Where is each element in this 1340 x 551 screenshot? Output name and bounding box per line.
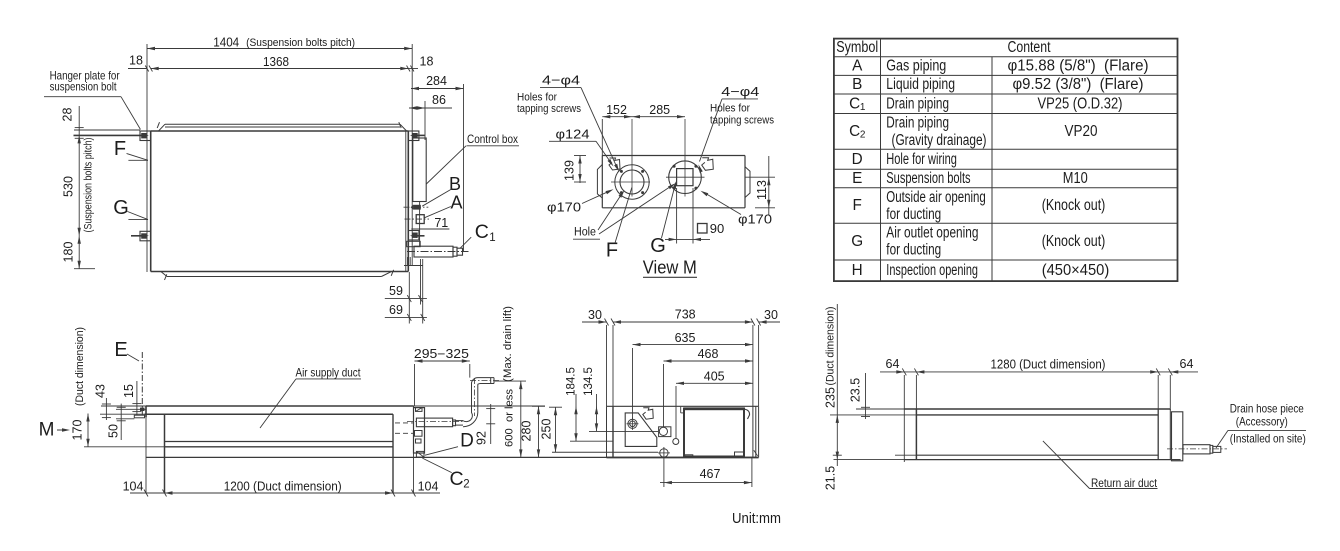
svg-text:(450×450): (450×450) [1042, 262, 1110, 279]
svg-text:Outside air opening: Outside air opening [886, 189, 986, 206]
svg-text:φ9.52 (3/8") (Flare): φ9.52 (3/8") (Flare) [1013, 76, 1144, 93]
svg-text:G: G [851, 233, 863, 250]
svg-text:C: C [449, 468, 463, 490]
svg-text:104: 104 [123, 479, 144, 493]
svg-text:(Max. drain lift): (Max. drain lift) [502, 306, 514, 382]
svg-text:VP20: VP20 [1065, 123, 1098, 140]
svg-text:Content: Content [1008, 39, 1052, 56]
svg-text:1200 (Duct dimension): 1200 (Duct dimension) [224, 479, 342, 493]
svg-text:280: 280 [520, 421, 534, 442]
svg-text:64: 64 [886, 357, 900, 371]
svg-text:(Installed on site): (Installed on site) [1230, 431, 1306, 445]
svg-text:235: 235 [824, 387, 838, 408]
svg-text:Drain hose piece: Drain hose piece [1230, 401, 1304, 415]
svg-text:1404: 1404 [213, 35, 239, 50]
svg-text:285: 285 [649, 103, 670, 117]
svg-text:69: 69 [389, 303, 403, 317]
svg-text:467: 467 [700, 467, 721, 481]
svg-text:21.5: 21.5 [824, 466, 838, 490]
svg-text:Drain piping: Drain piping [886, 115, 949, 132]
svg-text:A: A [450, 193, 462, 213]
svg-text:1: 1 [860, 102, 866, 113]
svg-text:113: 113 [755, 180, 769, 200]
svg-text:92: 92 [475, 431, 489, 445]
svg-text:F: F [114, 138, 126, 160]
svg-text:Return air duct: Return air duct [1091, 476, 1158, 490]
svg-text:VP25 (O.D.32): VP25 (O.D.32) [1038, 95, 1123, 112]
svg-text:(Duct dimension): (Duct dimension) [825, 306, 837, 385]
svg-text:134.5: 134.5 [583, 367, 595, 396]
svg-text:50: 50 [107, 424, 121, 438]
svg-text:φ124: φ124 [556, 127, 590, 142]
svg-text:4−φ4: 4−φ4 [721, 84, 759, 99]
svg-text:C: C [849, 95, 860, 112]
svg-text:φ170: φ170 [547, 200, 581, 215]
svg-text:F: F [853, 197, 862, 214]
svg-text:295−325: 295−325 [414, 347, 469, 361]
svg-text:M: M [39, 420, 55, 441]
svg-text:suspension bolt: suspension bolt [50, 79, 118, 93]
svg-text:2: 2 [860, 129, 866, 140]
svg-text:tapping screws: tapping screws [517, 103, 581, 115]
svg-text:φ15.88 (5/8") (Flare): φ15.88 (5/8") (Flare) [1008, 58, 1149, 75]
svg-text:(Knock out): (Knock out) [1042, 197, 1106, 214]
svg-text:2: 2 [463, 478, 469, 490]
svg-text:D: D [460, 431, 474, 452]
svg-text:for ducting: for ducting [886, 206, 941, 223]
svg-text:B: B [449, 174, 461, 194]
svg-text:Inspection opening: Inspection opening [886, 262, 978, 279]
svg-text:71: 71 [434, 216, 448, 230]
svg-text:A: A [852, 58, 863, 75]
svg-text:View M: View M [643, 258, 697, 278]
svg-text:E: E [852, 170, 862, 187]
svg-text:Hole for wiring: Hole for wiring [886, 151, 957, 168]
svg-text:530: 530 [62, 176, 76, 197]
svg-text:E: E [114, 339, 127, 361]
svg-text:Symbol: Symbol [836, 39, 878, 56]
svg-text:180: 180 [62, 242, 76, 263]
svg-text:(Knock out): (Knock out) [1042, 233, 1106, 250]
svg-text:4−φ4: 4−φ4 [542, 73, 580, 88]
svg-text:Air outlet opening: Air outlet opening [886, 224, 978, 241]
svg-text:28: 28 [61, 108, 75, 122]
svg-text:(Suspension bolts pitch): (Suspension bolts pitch) [83, 137, 95, 232]
svg-text:for ducting: for ducting [886, 242, 941, 259]
svg-text:43: 43 [94, 384, 108, 398]
svg-text:tapping screws: tapping screws [710, 115, 774, 127]
svg-text:90: 90 [710, 221, 724, 236]
svg-text:284: 284 [426, 74, 447, 88]
svg-text:184.5: 184.5 [566, 367, 578, 396]
svg-text:Holes for: Holes for [517, 92, 557, 104]
svg-text:152: 152 [606, 103, 627, 117]
svg-text:18: 18 [129, 54, 143, 68]
svg-text:59: 59 [389, 284, 403, 298]
svg-text:(Duct dimension): (Duct dimension) [74, 327, 86, 406]
svg-text:Suspension bolts: Suspension bolts [886, 170, 971, 187]
svg-text:Holes for: Holes for [710, 103, 750, 115]
svg-text:Control box: Control box [467, 132, 518, 146]
svg-text:18: 18 [420, 55, 434, 69]
svg-text:Hole: Hole [574, 227, 596, 239]
svg-text:(Suspension bolts pitch): (Suspension bolts pitch) [246, 37, 355, 49]
svg-text:φ170: φ170 [738, 212, 772, 227]
svg-text:635: 635 [675, 331, 696, 345]
svg-text:104: 104 [418, 479, 439, 493]
svg-text:23.5: 23.5 [849, 378, 863, 402]
svg-text:M10: M10 [1063, 170, 1088, 187]
svg-text:H: H [852, 262, 863, 279]
svg-text:1: 1 [489, 232, 495, 244]
svg-text:F: F [606, 240, 618, 262]
svg-text:C: C [475, 221, 489, 243]
svg-text:405: 405 [704, 369, 725, 383]
svg-text:600 or less: 600 or less [504, 389, 516, 447]
svg-text:G: G [650, 235, 666, 257]
svg-text:139: 139 [563, 160, 577, 181]
svg-text:64: 64 [1180, 357, 1194, 371]
svg-text:G: G [113, 197, 129, 219]
svg-text:250: 250 [540, 419, 554, 440]
svg-text:(Gravity drainage): (Gravity drainage) [892, 132, 987, 149]
svg-text:30: 30 [588, 308, 602, 322]
svg-text:30: 30 [764, 308, 778, 322]
svg-text:B: B [852, 76, 862, 93]
svg-text:D: D [852, 151, 863, 168]
svg-text:468: 468 [698, 347, 719, 361]
svg-text:Gas piping: Gas piping [886, 58, 946, 75]
svg-text:C: C [849, 123, 860, 140]
svg-text:Unit:mm: Unit:mm [732, 511, 781, 527]
svg-text:15: 15 [122, 384, 136, 398]
svg-text:86: 86 [432, 93, 446, 107]
svg-text:1368: 1368 [263, 54, 289, 69]
svg-text:Drain piping: Drain piping [886, 95, 949, 112]
svg-text:Air supply duct: Air supply duct [296, 366, 362, 380]
svg-text:1280 (Duct dimension): 1280 (Duct dimension) [991, 358, 1106, 372]
svg-text:170: 170 [71, 420, 85, 441]
svg-text:(Accessory): (Accessory) [1236, 414, 1288, 428]
svg-text:Liquid piping: Liquid piping [886, 76, 955, 93]
svg-text:738: 738 [675, 308, 696, 322]
